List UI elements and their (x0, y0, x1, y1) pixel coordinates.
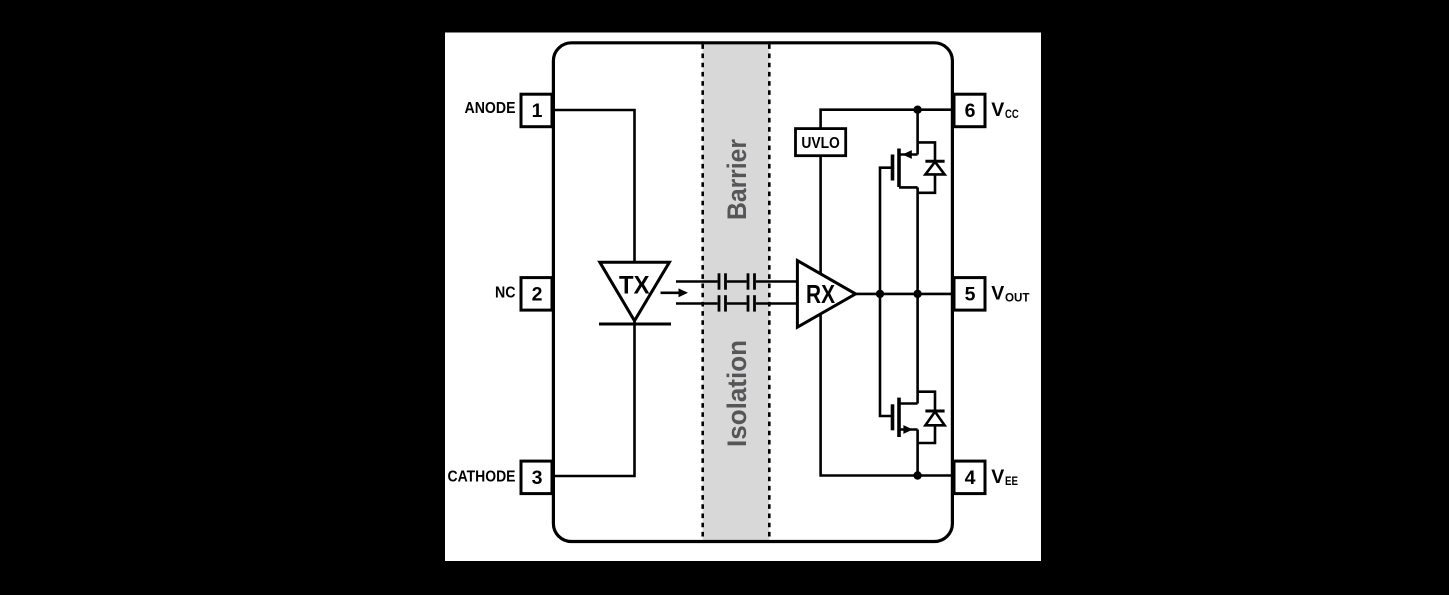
svg-text:NC: NC (495, 285, 516, 302)
diode D2 (Q2 body diode) (918, 392, 945, 443)
IC package outline (553, 43, 952, 542)
svg-text:V: V (991, 282, 1004, 304)
svg-text:Barrier: Barrier (722, 139, 752, 220)
Q1 drain wire down (916, 187, 919, 294)
svg-text:Isolation: Isolation (722, 340, 752, 447)
Q2 drain leg (899, 402, 918, 405)
LED TX triangle U1 (600, 262, 670, 321)
comparator RX U2 (797, 261, 855, 328)
pin 4 box (954, 461, 985, 494)
svg-text:V: V (991, 466, 1004, 488)
Q1 drain leg (899, 186, 918, 189)
capacitor C3 plates (718, 295, 721, 311)
Q2 source leg (899, 428, 918, 431)
capacitor C2 plates (747, 273, 750, 289)
Q1 source leg (899, 153, 918, 156)
svg-text:CATHODE: CATHODE (448, 468, 516, 485)
wire top signal segment b (727, 280, 747, 283)
svg-text:2: 2 (532, 283, 543, 305)
pin 5 box (954, 278, 985, 311)
svg-text:OUT: OUT (1005, 293, 1030, 305)
diode D1 (Q1 body diode) (918, 142, 945, 192)
isolation barrier gray band (703, 44, 770, 540)
Q1 source arrow (902, 150, 911, 159)
wire UVLO rail down to VEE (821, 156, 953, 476)
Q1 source wire from VCC (916, 110, 919, 155)
Q2 source arrow (903, 425, 912, 434)
barrier dashed line left (701, 44, 704, 540)
wire pin1 to TX (553, 110, 635, 263)
capacitor C1 plates (718, 273, 721, 289)
D1 bottom branch (918, 174, 935, 192)
D1 cathode bar (925, 160, 944, 163)
svg-text:3: 3 (532, 467, 543, 489)
junction node on VEE (913, 471, 921, 479)
D2 cathode bar (925, 410, 944, 413)
LED cathode bar (599, 323, 671, 326)
wire top signal segment a (676, 280, 718, 283)
svg-text:ANODE: ANODE (465, 100, 516, 117)
wire bottom signal segment c (756, 302, 798, 305)
svg-text:TX: TX (619, 272, 650, 300)
junction node output rail (913, 290, 921, 298)
junction node RX output (876, 290, 884, 298)
D1 top branch (918, 142, 935, 161)
junction node on VCC (913, 106, 921, 114)
svg-text:UVLO: UVLO (801, 135, 840, 152)
D1 triangle (925, 162, 944, 175)
svg-text:4: 4 (965, 467, 976, 489)
wire VCC rail (821, 110, 953, 129)
wire gate rail (880, 168, 893, 416)
transistor Q2 (low-side NMOS) (893, 294, 918, 476)
svg-text:EE: EE (1005, 476, 1018, 488)
transistor Q1 (high-side PMOS) (893, 110, 918, 294)
svg-text:1: 1 (532, 100, 543, 122)
Q1 gate bar (891, 155, 895, 181)
pin 3 box (521, 461, 552, 494)
svg-text:RX: RX (806, 279, 836, 309)
wire top signal segment c (756, 280, 798, 283)
pin 1 box (521, 94, 552, 127)
wire bottom signal segment b (727, 302, 747, 305)
arrow TX to RX (661, 291, 681, 294)
Q2 gate bar (891, 404, 895, 430)
wire RX output to pin5 (856, 293, 953, 296)
svg-text:6: 6 (965, 100, 976, 122)
D2 top branch (918, 392, 935, 411)
svg-text:V: V (991, 99, 1004, 121)
pin 6 box (954, 94, 985, 127)
Q2 drain wire up (916, 294, 919, 404)
D2 triangle (925, 412, 944, 426)
barrier dashed line right (768, 44, 771, 540)
D2 bottom branch (918, 425, 935, 443)
Q1 channel bar (897, 149, 901, 188)
white panel (445, 33, 1041, 562)
capacitor C4 plates (747, 295, 750, 311)
svg-text:5: 5 (965, 283, 976, 305)
Q2 channel bar (897, 398, 901, 437)
Q2 source wire down (916, 430, 919, 476)
wire bottom signal segment a (676, 302, 718, 305)
svg-text:CC: CC (1005, 109, 1019, 121)
wire TX to pin3 (552, 318, 635, 476)
pin 2 box (521, 278, 552, 311)
UVLO block (796, 129, 846, 156)
